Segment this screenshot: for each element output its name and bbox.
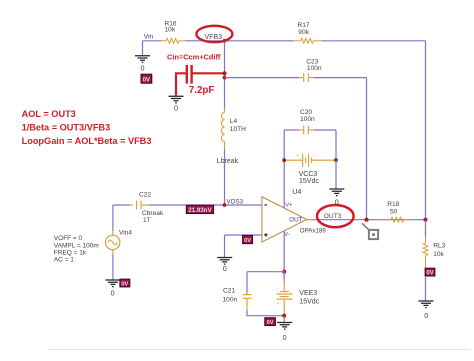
svg-text:VFB3: VFB3 xyxy=(205,34,223,41)
svg-text:100n: 100n xyxy=(307,65,322,72)
svg-text:Cin=Ccm+Cdiff: Cin=Ccm+Cdiff xyxy=(167,53,221,62)
op-amp U4 xyxy=(262,187,326,242)
junction VCC3 left xyxy=(282,158,286,162)
wire op-amp plus input to ground xyxy=(225,235,263,257)
svg-text:21.93nV: 21.93nV xyxy=(188,207,212,214)
svg-text:VOFF = 0: VOFF = 0 xyxy=(54,235,83,242)
svg-text:C20: C20 xyxy=(300,109,312,116)
wire R17 to right rail xyxy=(322,40,426,42)
bias label 0V (Vin) xyxy=(141,74,152,83)
wire Vin4 to ground xyxy=(112,255,114,280)
ground (VCC3) xyxy=(329,189,344,196)
battery VCC3 xyxy=(284,153,336,185)
bias box 21.93nV xyxy=(186,205,213,214)
wire VFB3 branch down to L4 xyxy=(224,41,226,108)
ground (Cin) xyxy=(169,96,184,103)
svg-text:AOL = OUT3: AOL = OUT3 xyxy=(22,109,76,119)
resistor R17 xyxy=(293,22,322,43)
wire RL3 to ground xyxy=(425,276,427,301)
junction VCC3 right xyxy=(334,158,338,162)
svg-text:50: 50 xyxy=(390,209,398,216)
wire C23 to mid rail xyxy=(314,77,367,79)
junction VFB3 branch xyxy=(223,39,227,43)
svg-text:OUT: OUT xyxy=(289,217,302,224)
annotation AOL block xyxy=(22,109,152,146)
svg-text:100n: 100n xyxy=(300,116,315,123)
svg-text:OPAx189: OPAx189 xyxy=(300,228,327,235)
svg-text:0V: 0V xyxy=(244,238,251,244)
wire output to right rail (OUT3 net) xyxy=(313,219,426,221)
ground (Vin) xyxy=(135,56,150,63)
svg-text:0: 0 xyxy=(141,64,145,73)
svg-text:10k: 10k xyxy=(433,251,444,258)
source params text xyxy=(54,235,99,263)
resistor RL3 xyxy=(423,220,446,269)
probe marker xyxy=(362,223,378,239)
svg-text:FREQ = 1k: FREQ = 1k xyxy=(54,250,87,257)
svg-text:Lbreak: Lbreak xyxy=(217,158,239,165)
svg-text:VAMPL = 100m: VAMPL = 100m xyxy=(54,243,99,250)
bias label 0V (RL3) xyxy=(425,268,435,276)
svg-text:0V: 0V xyxy=(426,271,433,277)
inductor L4 xyxy=(221,108,246,150)
capacitor C20 xyxy=(299,109,315,135)
ground (Vin4) xyxy=(105,280,120,287)
svg-text:U4: U4 xyxy=(292,187,301,196)
node label OUT3 (red ellipse) xyxy=(317,205,354,227)
svg-text:R17: R17 xyxy=(298,22,310,29)
wire C22 down to Vin4 xyxy=(112,205,114,231)
wire mid rail down xyxy=(366,78,368,220)
node label VFB3 (red ellipse) xyxy=(196,26,232,42)
ground (RL3) xyxy=(419,301,434,308)
title block border line xyxy=(48,349,470,351)
bias label 0V (VEE3) xyxy=(265,318,276,326)
svg-text:VOS3: VOS3 xyxy=(227,198,244,205)
svg-text:100n: 100n xyxy=(223,296,238,303)
wire VEE3 to ground xyxy=(283,316,285,322)
wire right rail down xyxy=(425,41,427,220)
svg-text:C21: C21 xyxy=(223,288,235,295)
svg-text:0: 0 xyxy=(223,264,227,273)
battery VEE3 xyxy=(277,272,320,316)
resistor R18 xyxy=(383,201,413,222)
junction VEE3 bottom xyxy=(282,314,286,318)
wire R16 to R17 (VFB3 net) xyxy=(185,40,293,42)
svg-text:0V: 0V xyxy=(121,281,128,287)
svg-text:R18: R18 xyxy=(387,201,399,208)
capacitor C21 xyxy=(223,288,252,311)
bias label 0V (Vin4) xyxy=(120,279,130,287)
wire C20 top right xyxy=(314,130,337,160)
svg-text:1/Beta = OUT3/VFB3: 1/Beta = OUT3/VFB3 xyxy=(22,122,111,132)
svg-text:Vin4: Vin4 xyxy=(119,230,132,237)
wire C23 net left xyxy=(225,77,300,79)
junction VOS3 xyxy=(223,203,227,207)
svg-text:AC = 1: AC = 1 xyxy=(54,257,74,264)
svg-text:L4: L4 xyxy=(230,118,238,125)
wire C22 to op-amp minus input xyxy=(149,204,262,206)
svg-text:Vin: Vin xyxy=(144,34,154,41)
svg-text:0: 0 xyxy=(283,333,287,342)
junction Cin at VFB3 branch xyxy=(222,71,226,75)
svg-text:+: + xyxy=(296,153,299,158)
capacitor C22 xyxy=(129,192,164,225)
svg-text:0: 0 xyxy=(174,104,178,113)
wire op-amp output stub xyxy=(307,219,313,221)
wire C22 corner to cap xyxy=(113,204,129,206)
wire L4 to VOS3 xyxy=(224,150,226,206)
svg-text:7.2pF: 7.2pF xyxy=(189,85,215,96)
junction V- node xyxy=(282,270,286,274)
svg-text:C22: C22 xyxy=(139,192,151,199)
wire C21 bottom xyxy=(247,310,284,316)
wire Vin horizontal to R16 xyxy=(143,40,162,42)
capacitor Cin (red) xyxy=(176,65,224,96)
ground (op-amp +) xyxy=(217,258,232,265)
svg-text:0V: 0V xyxy=(267,320,274,326)
svg-text:0V: 0V xyxy=(143,77,150,83)
svg-text:10k: 10k xyxy=(165,27,176,34)
svg-text:15Vdc: 15Vdc xyxy=(299,178,319,185)
svg-text:90k: 90k xyxy=(298,29,309,36)
capacitor C23 xyxy=(299,58,322,82)
junction OUT net right xyxy=(423,218,427,222)
bias label 0V (op-amp +) xyxy=(243,235,253,244)
junction C23 net at VFB3 branch xyxy=(223,76,227,80)
source Vin4 xyxy=(106,230,133,255)
svg-text:V+: V+ xyxy=(285,202,293,208)
wire V- pin down to VEE3 junction xyxy=(283,231,285,272)
ground (VEE3) xyxy=(277,323,292,330)
svg-text:0: 0 xyxy=(424,311,428,320)
svg-text:OUT3: OUT3 xyxy=(324,213,342,220)
wire Vin down to ground xyxy=(142,41,144,55)
svg-text:0: 0 xyxy=(111,288,115,297)
svg-text:V-: V- xyxy=(284,232,290,238)
wire to C21 top xyxy=(247,272,284,294)
resistor R16 xyxy=(161,20,185,43)
svg-text:LoopGain = AOL*Beta = VFB3: LoopGain = AOL*Beta = VFB3 xyxy=(22,136,152,146)
svg-text:Cbreak: Cbreak xyxy=(142,210,164,217)
svg-text:1T: 1T xyxy=(143,217,151,224)
wire VCC3 left rail (V+ pin) xyxy=(283,130,285,209)
svg-text:10TH: 10TH xyxy=(230,126,246,133)
svg-text:+: + xyxy=(277,301,280,306)
svg-text:VEE3: VEE3 xyxy=(299,290,317,297)
svg-text:15Vdc: 15Vdc xyxy=(299,298,319,305)
wire VCC3 right to ground xyxy=(335,160,337,188)
svg-text:RL3: RL3 xyxy=(433,242,445,249)
junction OUT net mid xyxy=(364,218,368,222)
wire C20 top left xyxy=(284,129,299,131)
